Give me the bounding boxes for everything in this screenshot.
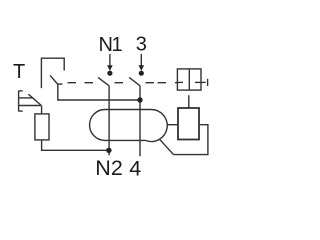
wire phase 3 conductor down <box>139 86 141 156</box>
test contact pivot tick <box>57 83 62 85</box>
trip solenoid <box>178 108 199 140</box>
wire test contact to phase 3 <box>58 84 140 100</box>
test resistor <box>35 114 49 140</box>
svg-text:T: T <box>13 61 25 83</box>
svg-text:N2: N2 <box>95 156 122 180</box>
relay box <box>177 69 201 90</box>
wire solenoid top to relay box <box>188 95 190 108</box>
svg-text:4: 4 <box>129 157 141 181</box>
wire button to resistor <box>41 106 43 114</box>
relay box left stub <box>177 81 183 83</box>
relay box end tick <box>207 79 209 86</box>
terminal dot 3 <box>139 71 144 76</box>
mechanical linkage dashed line <box>68 82 184 84</box>
junction dot on N conductor <box>106 148 111 153</box>
terminal dot N1 <box>107 71 112 76</box>
main contact 3 blade <box>129 77 140 85</box>
svg-text:3: 3 <box>136 34 147 56</box>
test pushbutton T <box>19 91 42 112</box>
main contact N blade <box>98 77 109 85</box>
wire N conductor down <box>108 86 110 155</box>
wire CT winding to solenoid left <box>167 124 178 126</box>
terminal arrow N1 <box>107 54 113 71</box>
relay box divider <box>188 69 190 90</box>
terminal arrow 3 <box>139 54 145 71</box>
relay box right stub <box>195 81 206 83</box>
wire solenoid right loop to CT winding <box>160 125 208 155</box>
junction dot on phase 3 <box>137 97 142 102</box>
test contact blade <box>50 75 58 84</box>
wire resistor to N2 conductor <box>42 140 109 150</box>
test contact wire bracket (fixed terminal feed) <box>41 58 64 88</box>
svg-text:N1: N1 <box>99 34 123 56</box>
current transformer core with secondary winding <box>90 109 168 141</box>
